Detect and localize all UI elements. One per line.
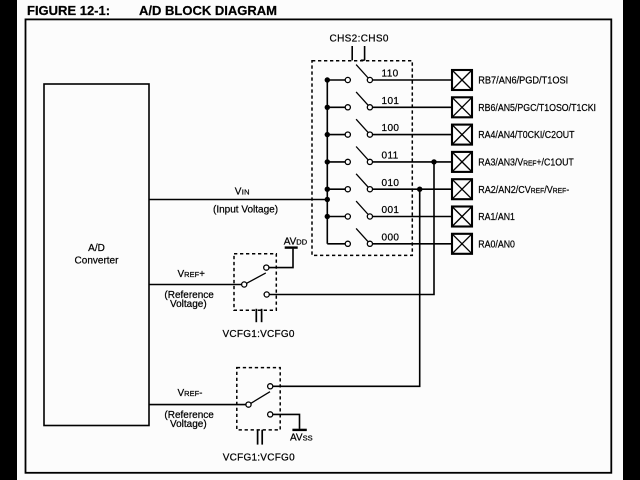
svg-text:VREF-: VREF-	[178, 388, 203, 399]
node bus junction row 011	[325, 159, 330, 164]
node bus junction row 001	[325, 214, 330, 219]
svg-text:RA2/AN2/CVREF/VREF-: RA2/AN2/CVREF/VREF-	[478, 184, 569, 196]
pin pad RB7/AN6/PGD/T1OSI	[452, 70, 568, 90]
label VIN	[213, 186, 278, 215]
figure title	[27, 3, 277, 18]
VCFG select lines (VREF-)	[258, 430, 263, 445]
wire VREF- bottom contact to AVSS	[273, 414, 300, 429]
node junction on RA3 wire	[431, 159, 436, 164]
svg-text:001: 001	[382, 205, 400, 216]
label VREF- (Reference Voltage)	[164, 388, 214, 430]
svg-text:FIGURE 12-1:: FIGURE 12-1:	[27, 3, 110, 18]
wire switch 010 to pin	[373, 188, 453, 190]
svg-text:CHS2:CHS0: CHS2:CHS0	[330, 34, 389, 45]
node bus junction row 100	[325, 132, 330, 137]
wire VREF+ from A/D converter	[149, 284, 242, 286]
wire VREF- top contact to RA2 pin line	[273, 189, 420, 386]
switch VREF+ pole and contacts	[242, 265, 270, 297]
mux common bus wire	[326, 80, 328, 244]
svg-text:000: 000	[382, 232, 400, 243]
switch SW001	[327, 201, 372, 219]
pin pad RA3/AN3/VREF+/C1OUT	[452, 152, 574, 172]
VREF+ source select switch (dashed enclosure)	[234, 254, 276, 310]
svg-text:VREF+: VREF+	[178, 269, 206, 280]
wire switch 110 to pin	[373, 79, 453, 81]
svg-text:RA1/AN1: RA1/AN1	[478, 211, 515, 223]
svg-text:Voltage): Voltage)	[170, 299, 207, 310]
svg-text:A/D: A/D	[88, 243, 105, 254]
svg-text:010: 010	[382, 178, 400, 189]
svg-text:Voltage): Voltage)	[170, 419, 207, 430]
svg-text:VCFG1:VCFG0: VCFG1:VCFG0	[223, 329, 295, 340]
node bus junction row 101	[325, 105, 330, 110]
switch SW010	[327, 174, 372, 192]
switch VREF- pole and contacts	[246, 384, 273, 417]
node junction on RA2 wire	[417, 187, 422, 192]
VCFG select lines (VREF+)	[256, 309, 261, 322]
wire VREF+ top contact to AVDD	[269, 249, 293, 268]
wire switch 100 to pin	[373, 134, 453, 136]
svg-text:VCFG1:VCFG0: VCFG1:VCFG0	[223, 453, 295, 464]
switch SW101	[327, 92, 372, 110]
pin pad RA2/AN2/CVREF/VREF-	[452, 179, 569, 199]
pin pad RA1/AN1	[452, 207, 515, 227]
analog input mux (dashed enclosure)	[312, 61, 412, 256]
svg-text:110: 110	[382, 69, 399, 80]
node VIN-bus junction	[325, 197, 330, 202]
switch SW100	[327, 119, 372, 137]
pin pad RA4/AN4/T0CKI/C2OUT	[452, 125, 575, 145]
switch SW110	[327, 65, 372, 83]
wire switch 101 to pin	[373, 106, 453, 108]
svg-text:A/D BLOCK DIAGRAM: A/D BLOCK DIAGRAM	[139, 3, 277, 18]
wire switch 000 to pin	[373, 243, 453, 245]
wire switch 011 to pin	[373, 161, 453, 163]
svg-text:100: 100	[382, 123, 400, 134]
svg-text:RA0/AN0: RA0/AN0	[478, 238, 515, 250]
ground AVSS	[290, 430, 313, 444]
svg-text:011: 011	[382, 151, 399, 162]
svg-text:VIN: VIN	[235, 186, 250, 197]
A/D Converter block	[44, 84, 149, 426]
svg-text:101: 101	[382, 96, 400, 107]
pin pad RA0/AN0	[452, 234, 515, 254]
pin pad RB6/AN5/PGC/T1OSO/T1CKI	[452, 97, 596, 117]
VREF- source select switch (dashed enclosure)	[237, 368, 280, 430]
svg-text:RB6/AN5/PGC/T1OSO/T1CKI: RB6/AN5/PGC/T1OSO/T1CKI	[478, 101, 596, 113]
svg-text:(Input Voltage): (Input Voltage)	[213, 205, 278, 216]
node bus junction row 010	[325, 187, 330, 192]
wire VREF+ bottom contact to RA3 pin line	[269, 162, 434, 295]
wire switch 001 to pin	[373, 216, 453, 218]
CHS select control lines	[352, 46, 364, 60]
wire VREF- from A/D converter	[149, 404, 246, 406]
wire VIN from A/D converter to mux bus	[149, 199, 327, 201]
svg-text:RB7/AN6/PGD/T1OSI: RB7/AN6/PGD/T1OSI	[478, 75, 568, 86]
label VREF+ (Reference Voltage)	[164, 269, 214, 310]
switch SW000	[327, 228, 372, 246]
switch SW011	[327, 147, 372, 165]
svg-text:RA4/AN4/T0CKI/C2OUT: RA4/AN4/T0CKI/C2OUT	[478, 129, 574, 141]
svg-text:AVDD: AVDD	[284, 237, 308, 248]
node bus junction row 110	[325, 77, 330, 82]
power AVDD	[284, 237, 308, 248]
svg-text:Converter: Converter	[75, 256, 120, 267]
svg-text:AVSS: AVSS	[290, 433, 313, 444]
